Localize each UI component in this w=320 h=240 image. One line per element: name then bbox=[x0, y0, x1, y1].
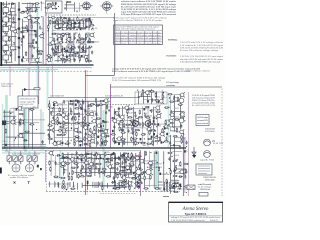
svg-text:signal B+ R105: signal B+ R105 bbox=[200, 160, 215, 162]
resistor R182 bbox=[79, 155, 84, 156]
wire bbox=[92, 182, 94, 188]
node N19 bbox=[42, 32, 43, 33]
diode D20 bbox=[61, 157, 65, 159]
transistor Q20 bbox=[17, 106, 23, 111]
IF transformer can 4 bbox=[55, 44, 61, 53]
resistor R271 bbox=[173, 175, 178, 176]
solder junction bbox=[96, 158, 97, 160]
transistor Q69 bbox=[121, 175, 127, 180]
wire bbox=[67, 7, 82, 9]
wire bbox=[22, 19, 24, 63]
wire bbox=[48, 16, 50, 62]
transistor Q18 bbox=[46, 57, 52, 62]
node N138 bbox=[117, 162, 118, 163]
solder junction bbox=[83, 41, 84, 42]
solder junction bbox=[49, 123, 50, 125]
capacitor C113 bbox=[122, 175, 124, 179]
magenta wire bbox=[86, 70, 88, 195]
svg-text:6,3V input collector 0,6V R105: 6,3V input collector 0,6V R105 6,3V volt… bbox=[115, 37, 162, 40]
wire bbox=[62, 102, 64, 147]
din pins bbox=[198, 166, 210, 174]
svg-text:2N3055: 2N3055 bbox=[56, 46, 64, 48]
svg-text:measured 11,4V: measured 11,4V bbox=[197, 119, 209, 122]
wire bbox=[42, 16, 44, 64]
transistor Q46 bbox=[155, 113, 161, 118]
cyan signal wire band bbox=[60, 150, 62, 180]
divider tap 4 bbox=[18, 37, 20, 39]
switch contacts bbox=[55, 182, 74, 187]
wire bbox=[79, 3, 81, 12]
solder junction bbox=[61, 132, 64, 134]
divider tap 3 bbox=[18, 28, 20, 30]
resistor R235 bbox=[121, 186, 126, 187]
resistor R219 bbox=[68, 175, 69, 180]
wire bbox=[169, 135, 171, 194]
solder junction bbox=[67, 50, 69, 51]
resistor R61 bbox=[81, 50, 86, 51]
capacitor C29 bbox=[78, 45, 80, 49]
solder junction bbox=[65, 7, 66, 9]
resistor R256 bbox=[63, 180, 64, 185]
wire bbox=[121, 170, 126, 172]
wire bbox=[123, 180, 125, 187]
wire bbox=[59, 154, 61, 176]
wire bbox=[21, 57, 36, 59]
node N83 bbox=[78, 119, 79, 120]
diode D18 bbox=[57, 154, 61, 156]
svg-text:BC148: BC148 bbox=[180, 188, 187, 190]
svg-text:0,2V B+ collector: 0,2V B+ collector bbox=[205, 179, 216, 182]
table row line bbox=[114, 35, 163, 37]
resistor R15 bbox=[25, 51, 26, 56]
svg-text:6,8V: 6,8V bbox=[118, 165, 123, 167]
resistor R222 bbox=[80, 176, 85, 177]
transistor Q40 bbox=[52, 141, 58, 146]
resistor R67 bbox=[66, 59, 71, 60]
node N84 bbox=[81, 125, 82, 126]
diode D5 bbox=[63, 17, 67, 19]
svg-text:1,2V: 1,2V bbox=[72, 155, 77, 157]
capacitor C22 bbox=[75, 31, 77, 33]
node N139 bbox=[134, 188, 135, 189]
transistor Q80 bbox=[179, 116, 185, 121]
table column line bbox=[144, 31, 146, 45]
wire bbox=[136, 181, 138, 188]
tone control wire bundle bbox=[2, 144, 46, 146]
transistor Q30 bbox=[96, 123, 102, 128]
table column line bbox=[128, 31, 130, 45]
resistor R85 bbox=[25, 131, 30, 132]
resistor R233 bbox=[134, 183, 139, 184]
wire bbox=[120, 173, 132, 175]
magenta wire bbox=[28, 68, 30, 112]
wire bbox=[99, 154, 101, 178]
resistor R5 bbox=[34, 18, 39, 19]
resistor R248 bbox=[143, 188, 148, 189]
resistor R165 bbox=[132, 138, 137, 139]
diode D17 bbox=[120, 129, 124, 131]
power transformer secondary bbox=[169, 182, 170, 191]
wire bbox=[144, 151, 146, 187]
wire bbox=[172, 126, 181, 128]
resistor R171 bbox=[140, 142, 145, 143]
transistor Q38 bbox=[86, 136, 92, 141]
resistor R128 bbox=[101, 138, 102, 143]
capacitor C32 bbox=[91, 50, 93, 54]
resistor R104 bbox=[57, 117, 58, 122]
wire bbox=[87, 101, 89, 146]
solder junction bbox=[157, 135, 158, 137]
transistor Q45 bbox=[119, 115, 125, 120]
magenta wire bbox=[45, 0, 47, 65]
capacitor C54 bbox=[52, 116, 54, 120]
solder junction bbox=[99, 155, 102, 157]
wire bbox=[22, 30, 37, 32]
wire bbox=[62, 154, 64, 176]
capacitor C99 bbox=[81, 158, 83, 162]
resistor R221 bbox=[78, 174, 79, 179]
resistor R71 bbox=[47, 4, 52, 5]
resistor R184 bbox=[96, 152, 97, 157]
tape jack box bbox=[196, 115, 209, 126]
solder junction bbox=[61, 43, 62, 45]
transistor Q79 bbox=[168, 118, 174, 123]
node N105 bbox=[160, 113, 161, 114]
transistor Q19 bbox=[50, 4, 56, 9]
wire bbox=[10, 107, 29, 109]
magenta wire bbox=[183, 133, 185, 196]
svg-text:R905: R905 bbox=[77, 138, 83, 140]
wire bbox=[10, 3, 12, 62]
capacitor C107 bbox=[77, 165, 79, 169]
resistor R63 bbox=[68, 54, 73, 55]
svg-text:signal with 0,6V signal collec: signal with 0,6V signal collector measur… bbox=[115, 28, 156, 31]
transistor Q57 bbox=[69, 157, 75, 162]
capacitor C98 bbox=[77, 156, 79, 158]
node N127 bbox=[53, 155, 54, 156]
phono sub-box bbox=[135, 92, 167, 104]
driver stage transistor QA bbox=[134, 169, 143, 175]
tuner coil module L2 bbox=[3, 16, 9, 24]
wire bbox=[32, 109, 34, 150]
capacitor C45 bbox=[82, 101, 84, 105]
resistor R212 bbox=[80, 169, 81, 174]
capacitor C11 bbox=[37, 49, 39, 53]
svg-text:0,2V signal voltage: 0,2V signal voltage bbox=[166, 81, 180, 84]
wire bbox=[115, 181, 117, 190]
wire bbox=[73, 18, 75, 62]
resistor R69 bbox=[86, 57, 87, 62]
transistor Q58 bbox=[133, 155, 139, 160]
capacitor C26 bbox=[87, 40, 89, 44]
resistor R140 bbox=[127, 117, 132, 118]
resistor R243 bbox=[139, 175, 140, 180]
resistor R108 bbox=[57, 120, 58, 125]
resistor R232 bbox=[131, 178, 136, 179]
resistor R44 bbox=[89, 38, 90, 43]
transistor Q29 bbox=[82, 125, 88, 130]
svg-text:11,4V 2,1V measured base 10k m: 11,4V 2,1V measured base 10k measured TR… bbox=[112, 79, 162, 82]
wire bbox=[27, 16, 29, 62]
solder junction bbox=[56, 8, 57, 9]
capacitor C130 bbox=[184, 175, 186, 179]
resistor R50 bbox=[77, 40, 78, 45]
binding mark bbox=[0, 168, 2, 174]
wire bbox=[78, 101, 80, 147]
wire bbox=[118, 108, 150, 110]
capacitor C96 bbox=[76, 151, 78, 155]
node N104 bbox=[144, 113, 145, 114]
power transistor Q22 bbox=[145, 121, 151, 127]
svg-text:6,3V input 22,5V R105 with 0,6: 6,3V input 22,5V R105 with 0,6V signal 1… bbox=[115, 31, 161, 34]
svg-text:1,2V: 1,2V bbox=[9, 41, 14, 43]
svg-text:1,9V 10k 1,9V 10k R105 11,4V i: 1,9V 10k 1,9V 10k R105 11,4V input signa… bbox=[180, 55, 224, 58]
capacitor C27 bbox=[51, 47, 53, 51]
resistor R145 bbox=[149, 118, 150, 123]
transistor voltage table bbox=[114, 25, 163, 45]
resistor R73 bbox=[45, 7, 50, 8]
wire bbox=[128, 180, 130, 189]
capacitor C92 bbox=[161, 141, 163, 143]
resistor R115 bbox=[48, 125, 53, 126]
transistor Q16 bbox=[58, 54, 64, 59]
capacitor C3 bbox=[8, 18, 10, 22]
wire bbox=[153, 151, 155, 188]
resistor R195 bbox=[65, 163, 70, 164]
svg-text:collector input collector 0,2V: collector input collector 0,2V 1,9V TR60… bbox=[121, 0, 176, 3]
wire bbox=[173, 94, 179, 96]
transistor Q35 bbox=[89, 133, 95, 138]
wire bbox=[47, 17, 64, 19]
svg-text:0,2V voltage measured 1,9V 0,6: 0,2V voltage measured 1,9V 0,6V bbox=[12, 153, 41, 156]
amp block bottom dashed edge bbox=[46, 191, 180, 193]
resistor R46 bbox=[55, 44, 60, 45]
transistor Q33 bbox=[91, 130, 97, 135]
resistor R143 bbox=[119, 121, 124, 122]
pilot lamp bbox=[61, 185, 65, 189]
resistor R262 bbox=[181, 135, 182, 140]
resistor R168 bbox=[159, 136, 160, 141]
resistor R270 bbox=[185, 169, 186, 174]
resistor R146 bbox=[165, 120, 166, 125]
capacitor C44 bbox=[78, 100, 80, 104]
capacitor C36 bbox=[81, 55, 83, 57]
capacitor C43 bbox=[63, 100, 65, 104]
wire bbox=[24, 16, 40, 18]
amp block right dashed edge bbox=[221, 89, 223, 197]
resistor R149 bbox=[131, 122, 132, 127]
wire bbox=[31, 16, 33, 61]
wire bbox=[137, 91, 139, 104]
resistor R223 bbox=[87, 175, 92, 176]
resistor R185 bbox=[105, 152, 106, 157]
pot feed wire bbox=[8, 151, 10, 157]
node N43 bbox=[71, 25, 72, 26]
magenta wire bbox=[38, 66, 40, 104]
resistor R247 bbox=[166, 179, 167, 184]
capacitor C95 bbox=[151, 98, 153, 102]
transistor Q10 bbox=[62, 30, 68, 35]
resistor R258 bbox=[70, 188, 75, 189]
wire bbox=[5, 1, 7, 63]
resistor R23 bbox=[52, 21, 57, 22]
solder junction bbox=[90, 20, 91, 22]
resistor R193 bbox=[123, 158, 128, 159]
resistor R207 bbox=[110, 167, 115, 168]
solder junction bbox=[110, 154, 113, 156]
capacitor C93 bbox=[141, 93, 143, 97]
wire bbox=[147, 106, 149, 147]
capacitor C48 bbox=[70, 108, 72, 112]
svg-text:0,2V 10k B+: 0,2V 10k B+ bbox=[205, 131, 216, 133]
wire bbox=[173, 154, 179, 156]
node N58 bbox=[36, 129, 37, 130]
wire bbox=[82, 99, 84, 146]
wire bbox=[60, 20, 84, 22]
resistor R158 bbox=[121, 132, 126, 133]
resistor R253 bbox=[178, 104, 183, 105]
resistor R24 bbox=[63, 21, 64, 26]
IF block dashed top bbox=[45, 14, 96, 16]
solder junction bbox=[63, 36, 64, 38]
resistor R204 bbox=[82, 165, 83, 170]
diode D21 bbox=[65, 156, 69, 158]
svg-text:2N3055: 2N3055 bbox=[77, 23, 85, 25]
wire bbox=[58, 182, 60, 188]
wire bbox=[153, 107, 155, 147]
resistor R210 bbox=[63, 168, 64, 173]
wire bbox=[28, 34, 37, 36]
svg-text:signal 0,2V collector TR601 B+: signal 0,2V collector TR601 B+ 2,1V 11,4… bbox=[113, 19, 162, 22]
resistor R177 bbox=[150, 91, 155, 92]
transistor Q12 bbox=[89, 32, 95, 37]
wire bbox=[117, 119, 131, 121]
capacitor C66 bbox=[118, 107, 120, 111]
svg-text:1,3V 11,4V R105 TR601 collecto: 1,3V 11,4V R105 TR601 collector B+ bbox=[171, 219, 206, 222]
capacitor C111 bbox=[130, 170, 132, 174]
resistor R251 bbox=[169, 101, 174, 102]
resistor R139 bbox=[156, 111, 161, 112]
cyan wire band bbox=[168, 95, 170, 148]
wire bbox=[144, 99, 158, 101]
resistor R40 bbox=[86, 33, 87, 38]
resistor R183 bbox=[87, 153, 92, 154]
wire bbox=[104, 154, 106, 177]
wire bbox=[59, 26, 89, 28]
diode D8 bbox=[69, 100, 73, 102]
wire bbox=[8, 36, 16, 38]
wire bbox=[25, 7, 40, 9]
diode D19 bbox=[85, 153, 89, 155]
solder junction bbox=[23, 56, 24, 58]
resistor R173 bbox=[152, 140, 153, 145]
capacitor C125 bbox=[186, 141, 188, 145]
resistor R91 bbox=[80, 103, 81, 108]
resistor R181 bbox=[62, 152, 63, 157]
node N137 bbox=[132, 155, 133, 156]
transistor Q66 bbox=[134, 155, 140, 160]
sheet left border bbox=[0, 2, 2, 66]
resistor R6 bbox=[34, 22, 39, 23]
resistor R187 bbox=[131, 152, 132, 157]
resistor R11 bbox=[21, 38, 22, 43]
node N82 bbox=[84, 112, 85, 113]
IF transformer can 3 bbox=[80, 20, 86, 29]
solder junction bbox=[113, 180, 116, 182]
amp block left dashed edge bbox=[46, 150, 48, 192]
solder junction bbox=[12, 3, 13, 4]
wire bbox=[31, 61, 42, 63]
resistor R156 bbox=[162, 128, 163, 133]
balance control bbox=[26, 164, 34, 172]
solder junction bbox=[57, 38, 58, 40]
resistor R29 bbox=[67, 25, 68, 30]
solder junction bbox=[58, 28, 61, 29]
resistor R118 bbox=[47, 129, 52, 130]
main supply bus bbox=[0, 64, 94, 66]
resistor R138 bbox=[139, 110, 140, 115]
solder junction bbox=[163, 141, 164, 144]
capacitor C88 bbox=[151, 136, 153, 138]
resistor R268 bbox=[175, 166, 176, 171]
wire bbox=[119, 180, 124, 182]
capacitor C38 bbox=[55, 2, 57, 4]
capacitor C37 bbox=[74, 58, 76, 62]
wire bbox=[110, 154, 112, 178]
capacitor C84 bbox=[132, 131, 134, 135]
solder junction bbox=[34, 47, 35, 49]
resistor R237 bbox=[145, 151, 146, 156]
diode D24 bbox=[111, 181, 115, 183]
wire bbox=[105, 101, 107, 144]
capacitor C57 bbox=[100, 125, 102, 127]
wire bbox=[106, 183, 108, 188]
resistor R160 bbox=[141, 134, 146, 135]
resistor R87 bbox=[95, 98, 96, 103]
resistor R74 bbox=[66, 1, 71, 2]
wire bbox=[47, 3, 49, 11]
resistor R141 bbox=[138, 117, 143, 118]
table column line bbox=[152, 31, 154, 45]
svg-text:B+ 0,6V 0,2V 0,2V 6,3V: B+ 0,6V 0,2V 0,2V 6,3V bbox=[192, 105, 216, 107]
capacitor C34 bbox=[66, 56, 68, 58]
potentiometer P4 bbox=[27, 153, 31, 165]
solder junction bbox=[93, 155, 94, 156]
capacitor C55 bbox=[71, 117, 73, 121]
diode D25 bbox=[123, 181, 127, 183]
wire bbox=[31, 3, 33, 13]
wire bbox=[56, 122, 92, 124]
wire bbox=[170, 145, 180, 147]
transistor Q25 bbox=[89, 111, 95, 116]
wire bbox=[54, 111, 68, 113]
capacitor C89 bbox=[165, 137, 167, 141]
resistor R2 bbox=[9, 37, 10, 42]
resistor R245 bbox=[150, 175, 151, 180]
capacitor C61 bbox=[97, 136, 99, 138]
node N59 bbox=[14, 140, 15, 141]
transistor Q8 bbox=[34, 58, 40, 63]
capacitor C21 bbox=[62, 29, 64, 31]
wire bbox=[8, 14, 16, 16]
transistor Q4 bbox=[2, 29, 8, 34]
capacitor C68 bbox=[114, 111, 116, 113]
node N41 bbox=[49, 17, 50, 18]
svg-text:6,3V base R105 input 6,3V R105: 6,3V base R105 input 6,3V R105 2,1V inpu… bbox=[121, 13, 177, 16]
diode D14 bbox=[79, 140, 83, 142]
resistor R265 bbox=[172, 160, 177, 161]
wire bbox=[59, 161, 87, 163]
